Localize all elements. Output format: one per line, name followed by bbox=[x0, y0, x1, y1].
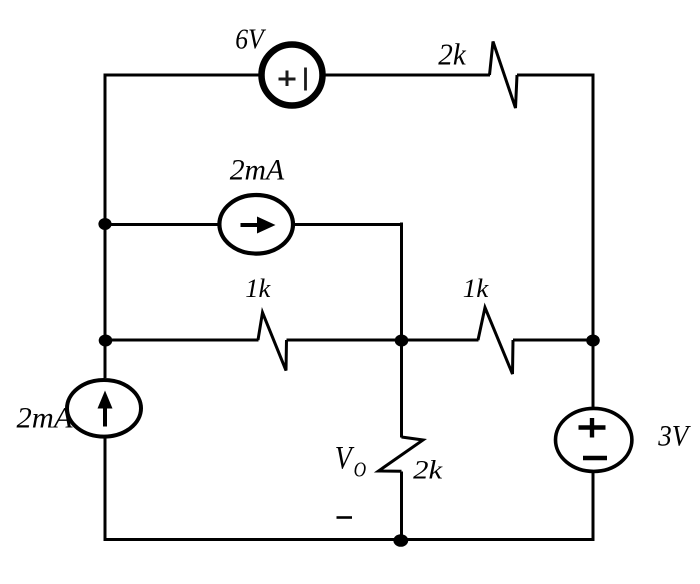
resistor R3 1k (right) bbox=[478, 308, 513, 375]
label Vo bbox=[335, 440, 366, 481]
resistor R4 2k (vertical) bbox=[379, 437, 424, 471]
wire bottom horizontal bbox=[104, 538, 595, 541]
resistor R2 1k (left) bbox=[258, 313, 287, 371]
I2 arrow bbox=[98, 391, 113, 427]
node A2 junction dot (left, y=340) bbox=[99, 335, 113, 347]
I1 arrow bbox=[241, 217, 276, 234]
wire middle (I1 right terminal going right) bbox=[293, 223, 403, 226]
voltage source V1 6V bbox=[262, 45, 323, 106]
node C junction dot (right, y=340) bbox=[586, 335, 600, 347]
wire right vertical upper (top-right corner to node C) bbox=[592, 74, 595, 341]
svg-text:2mA: 2mA bbox=[17, 402, 74, 435]
wire top-right horizontal (R1 to top-right corner) bbox=[517, 74, 595, 77]
svg-text:1k: 1k bbox=[245, 274, 270, 303]
wire center vertical lower (R4 to bottom node D) bbox=[400, 472, 403, 541]
current source I1 2mA (middle, arrow right) bbox=[219, 195, 293, 254]
svg-text:6V: 6V bbox=[235, 25, 266, 56]
svg-text:2k: 2k bbox=[413, 456, 443, 485]
svg-text:2mA: 2mA bbox=[230, 154, 285, 187]
V1 plus sign bbox=[279, 71, 296, 87]
wire top middle (6V right terminal to resistor R1) bbox=[324, 74, 490, 77]
V2 plus sign bbox=[579, 418, 606, 438]
node A junction dot (left, y=224) bbox=[98, 218, 111, 230]
voltage source V2 3V bbox=[556, 408, 632, 471]
wire row2 right (R3 to node C) bbox=[513, 339, 593, 342]
wire middle-left (node A to current source I1) bbox=[105, 223, 220, 226]
wire row2 left (node A to resistor R2) bbox=[105, 339, 259, 342]
resistor R1 2k (top) bbox=[490, 42, 518, 109]
wire top-left horizontal (top node to 6V left terminal) bbox=[104, 74, 261, 77]
node B junction dot (center, y=340) bbox=[395, 335, 409, 347]
wire left vertical lower (I2 to bottom-left corner) bbox=[104, 438, 107, 541]
svg-text:1k: 1k bbox=[463, 274, 489, 303]
wire left vertical upper (top-left corner down to node A) bbox=[104, 74, 107, 379]
wire center vertical (node B to resistor R4) bbox=[400, 340, 403, 438]
node D junction dot (bottom, y=540) bbox=[393, 534, 408, 547]
svg-text:O: O bbox=[354, 458, 367, 482]
wire row2 middle (R2 to node B) bbox=[287, 339, 479, 342]
wire middle vertical drop (to node B) bbox=[400, 223, 403, 341]
V1 minus bar bbox=[304, 68, 307, 91]
Vo minus polarity mark bbox=[337, 516, 353, 519]
wire right vertical lower (3V to bottom-right corner) bbox=[592, 473, 595, 541]
wire right vertical (node C to 3V source) bbox=[592, 340, 595, 408]
current source I2 2mA (left, arrow up) bbox=[67, 380, 141, 437]
svg-text:2k: 2k bbox=[438, 36, 467, 71]
svg-text:3V: 3V bbox=[657, 419, 691, 452]
V2 minus sign bbox=[583, 456, 607, 461]
